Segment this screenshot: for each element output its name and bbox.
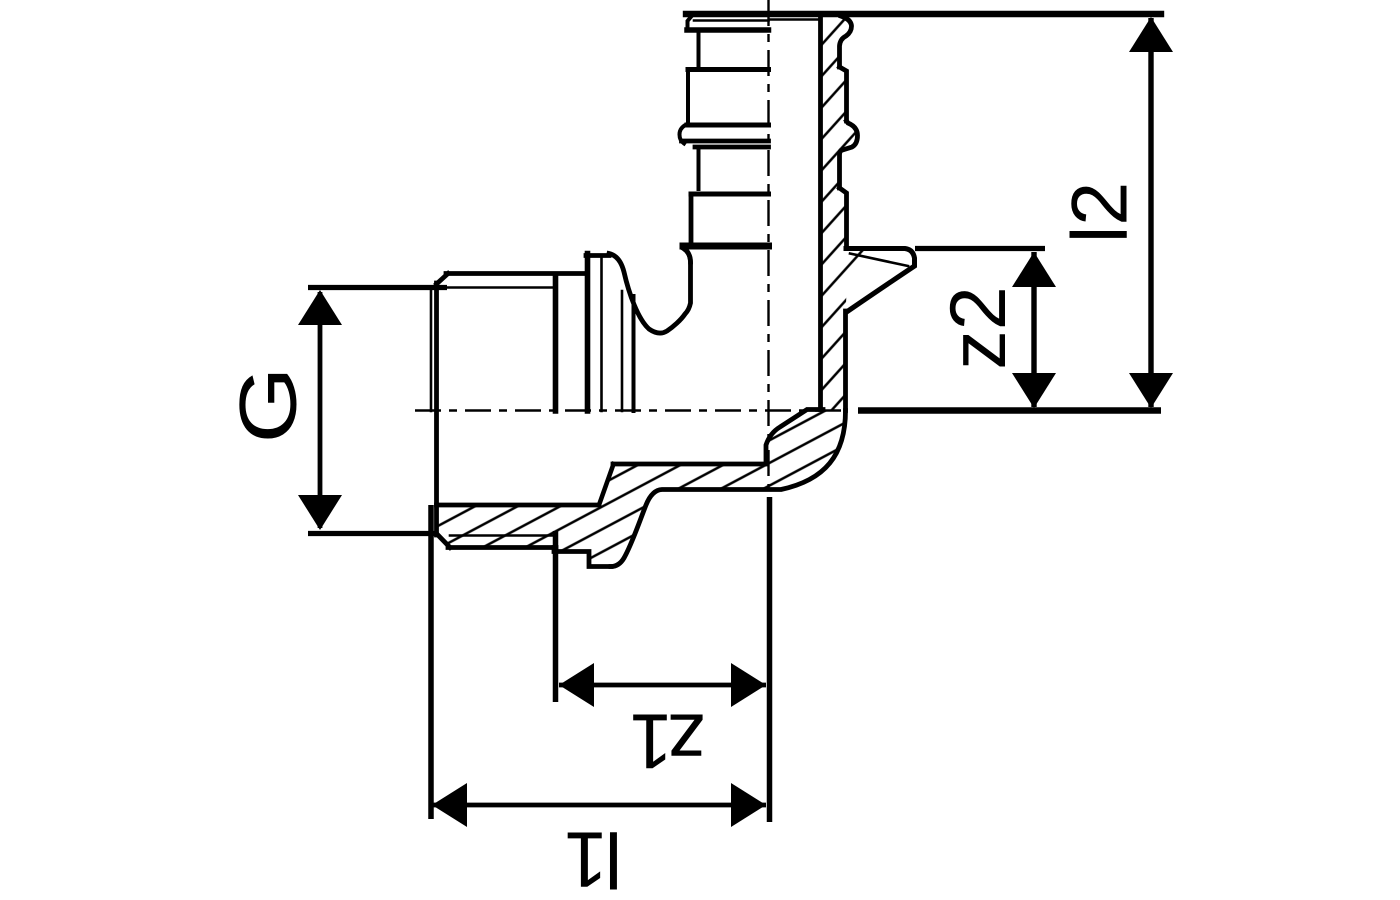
svg-text:G: G xyxy=(224,367,314,444)
svg-text:z2: z2 xyxy=(933,286,1022,369)
svg-text:l2: l2 xyxy=(1055,182,1144,244)
svg-text:l1: l1 xyxy=(567,816,623,900)
svg-text:z1: z1 xyxy=(633,698,706,786)
